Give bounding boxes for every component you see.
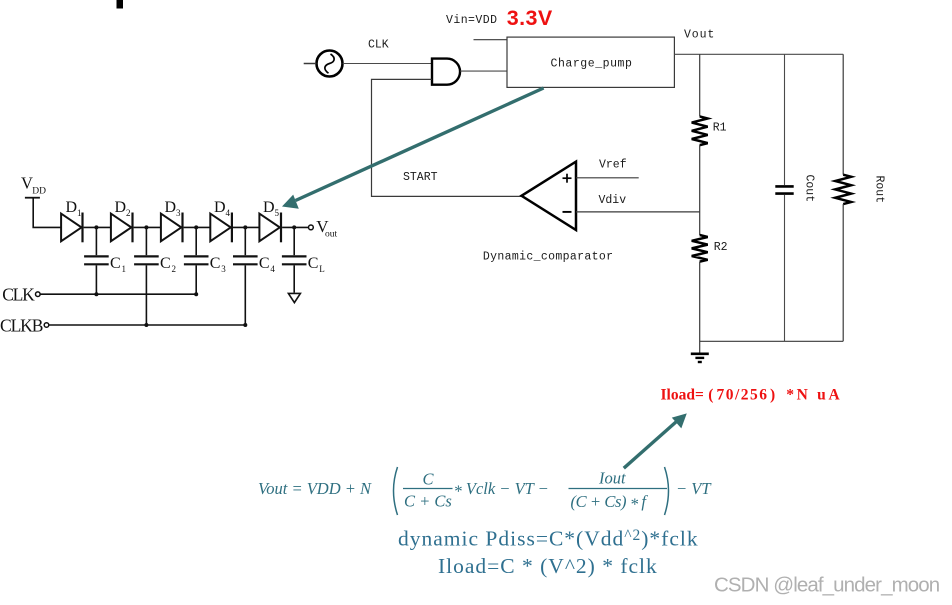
minus input mark [563, 211, 572, 213]
big paren close [665, 467, 669, 515]
svg-text:R1: R1 [713, 121, 727, 134]
diode D4 [210, 214, 230, 242]
svg-text:Rout: Rout [873, 176, 886, 204]
svg-text:Charge_pump: Charge_pump [551, 57, 633, 70]
clock source V1 [317, 51, 343, 77]
op-amp U2 Dynamic_comparator [522, 162, 577, 230]
wire CLKB rail [49, 324, 245, 326]
AND gate U1 [432, 59, 460, 85]
svg-text:* Vclk − VT −: * Vclk − VT − [454, 479, 549, 501]
svg-text:dynamic Pdiss=C*(Vdd^2)*fclk: dynamic Pdiss=C*(Vdd^2)*fclk [398, 526, 699, 550]
svg-text:C: C [259, 255, 270, 272]
ground (CL, open triangle) [288, 293, 300, 302]
wire: stub left of clock source [304, 63, 317, 65]
svg-text:2: 2 [126, 208, 131, 218]
svg-text:D: D [66, 199, 78, 216]
node dot 2 [144, 225, 148, 229]
svg-text:5: 5 [275, 208, 280, 218]
wire VDD to D1 [33, 198, 61, 228]
big paren open [394, 467, 398, 515]
svg-text:CLK: CLK [2, 285, 35, 305]
capacitor C3 [195, 227, 197, 255]
wire: R1 to R2 through Vdiv node [699, 145, 701, 235]
diode D3 [161, 214, 181, 242]
svg-text:D: D [214, 199, 226, 216]
wire: CLK from source to AND gate [343, 63, 432, 65]
wire: R2 to ground rail [699, 262, 701, 353]
terminal Vout (left circuit) [309, 225, 314, 230]
svg-text:Iout: Iout [598, 469, 626, 488]
svg-text:D: D [165, 199, 177, 216]
formula Vout equation [258, 467, 712, 515]
wire CLK rail [40, 293, 196, 295]
ground GND1 [691, 354, 709, 362]
svg-text:C: C [210, 255, 221, 272]
diode D1 [61, 214, 81, 242]
annotation arrow 1 (Charge_pump to D5) [296, 88, 544, 201]
svg-text:Vdiv: Vdiv [599, 194, 627, 207]
node dot CLKB-C4 [243, 323, 247, 327]
wire: Vin to Charge_pump [474, 39, 508, 41]
svg-text:C: C [308, 255, 319, 272]
svg-text:2: 2 [172, 264, 177, 274]
node dot CLK-C3 [194, 292, 198, 296]
node dot 1 [94, 225, 98, 229]
svg-text:out: out [325, 230, 338, 240]
capacitor C1 [95, 227, 97, 255]
title fragment (cropped character) [117, 0, 124, 9]
svg-text:R2: R2 [714, 241, 728, 254]
node dot 5 [292, 225, 296, 229]
svg-text:4: 4 [226, 208, 231, 218]
wire: AND output to Charge_pump [460, 70, 507, 72]
svg-text:C: C [110, 255, 121, 272]
svg-text:L: L [319, 264, 325, 274]
svg-text:Cout: Cout [803, 175, 816, 203]
svg-text:3: 3 [176, 208, 181, 218]
node dot CLKB-C2 [144, 323, 148, 327]
wire D3-D4 [184, 226, 211, 228]
terminal CLKB [44, 323, 49, 328]
resistor R1 [692, 116, 708, 145]
wire Vref [576, 177, 639, 179]
svg-text:C: C [423, 470, 435, 489]
svg-text:1: 1 [77, 208, 82, 218]
svg-text:C + Cs: C + Cs [404, 492, 452, 511]
capacitor C4 [244, 227, 246, 255]
node dot 4 [243, 225, 247, 229]
svg-text:CSDN @leaf_under_moon: CSDN @leaf_under_moon [714, 574, 940, 597]
terminal CLK [36, 292, 41, 297]
svg-text:(C + Cs) * f: (C + Cs) * f [571, 492, 649, 514]
svg-text:CLKB: CLKB [0, 315, 43, 335]
svg-text:CLK: CLK [368, 39, 389, 52]
annotation arrow 2 (formula to Iload) [624, 422, 677, 469]
svg-text:START: START [403, 171, 438, 184]
node dot CLK-C1 [94, 292, 98, 296]
svg-text:Iload=(70/256)*N uA: Iload=(70/256)*N uA [661, 386, 843, 403]
wire D1-D2 [84, 226, 111, 228]
svg-text:V: V [21, 173, 33, 192]
svg-text:Vin=VDD: Vin=VDD [446, 14, 497, 27]
svg-text:Vref: Vref [599, 158, 627, 171]
resistor Rout [842, 54, 844, 174]
svg-text:C: C [160, 255, 171, 272]
node dot 3 [194, 225, 198, 229]
diode D2 [111, 214, 131, 242]
capacitor CL [293, 227, 295, 255]
diode D5 [259, 214, 279, 242]
capacitor C2 [145, 227, 147, 255]
wire: bottom rail [700, 340, 844, 342]
svg-text:4: 4 [270, 264, 275, 274]
wire: Vout top rail [674, 53, 843, 55]
svg-text:Vout = VDD + N: Vout = VDD + N [258, 479, 372, 498]
wire Vdiv [576, 211, 700, 213]
svg-text:DD: DD [32, 187, 46, 197]
wire: Vout branch down to R1 [699, 54, 701, 116]
svg-text:− VT: − VT [676, 479, 712, 498]
resistor R2 [692, 235, 708, 262]
svg-text:1: 1 [122, 264, 127, 274]
plus input mark [563, 174, 572, 183]
svg-text:Iload=C * (V^2) * fclk: Iload=C * (V^2) * fclk [438, 554, 658, 578]
wire D4-D5 [233, 226, 259, 228]
svg-text:3.3V: 3.3V [507, 6, 553, 30]
wire D5 to Vout terminal [282, 226, 308, 228]
svg-text:3: 3 [221, 264, 226, 274]
svg-text:Dynamic_comparator: Dynamic_comparator [483, 250, 614, 263]
capacitor Cout [784, 54, 786, 185]
wire: START vertical feedback [372, 79, 522, 196]
svg-text:D: D [115, 199, 127, 216]
VDD terminal bar [25, 197, 40, 199]
svg-text:Vout: Vout [684, 29, 715, 42]
block Charge_pump [507, 37, 674, 87]
wire D2-D3 [134, 226, 161, 228]
svg-text:D: D [263, 199, 275, 216]
